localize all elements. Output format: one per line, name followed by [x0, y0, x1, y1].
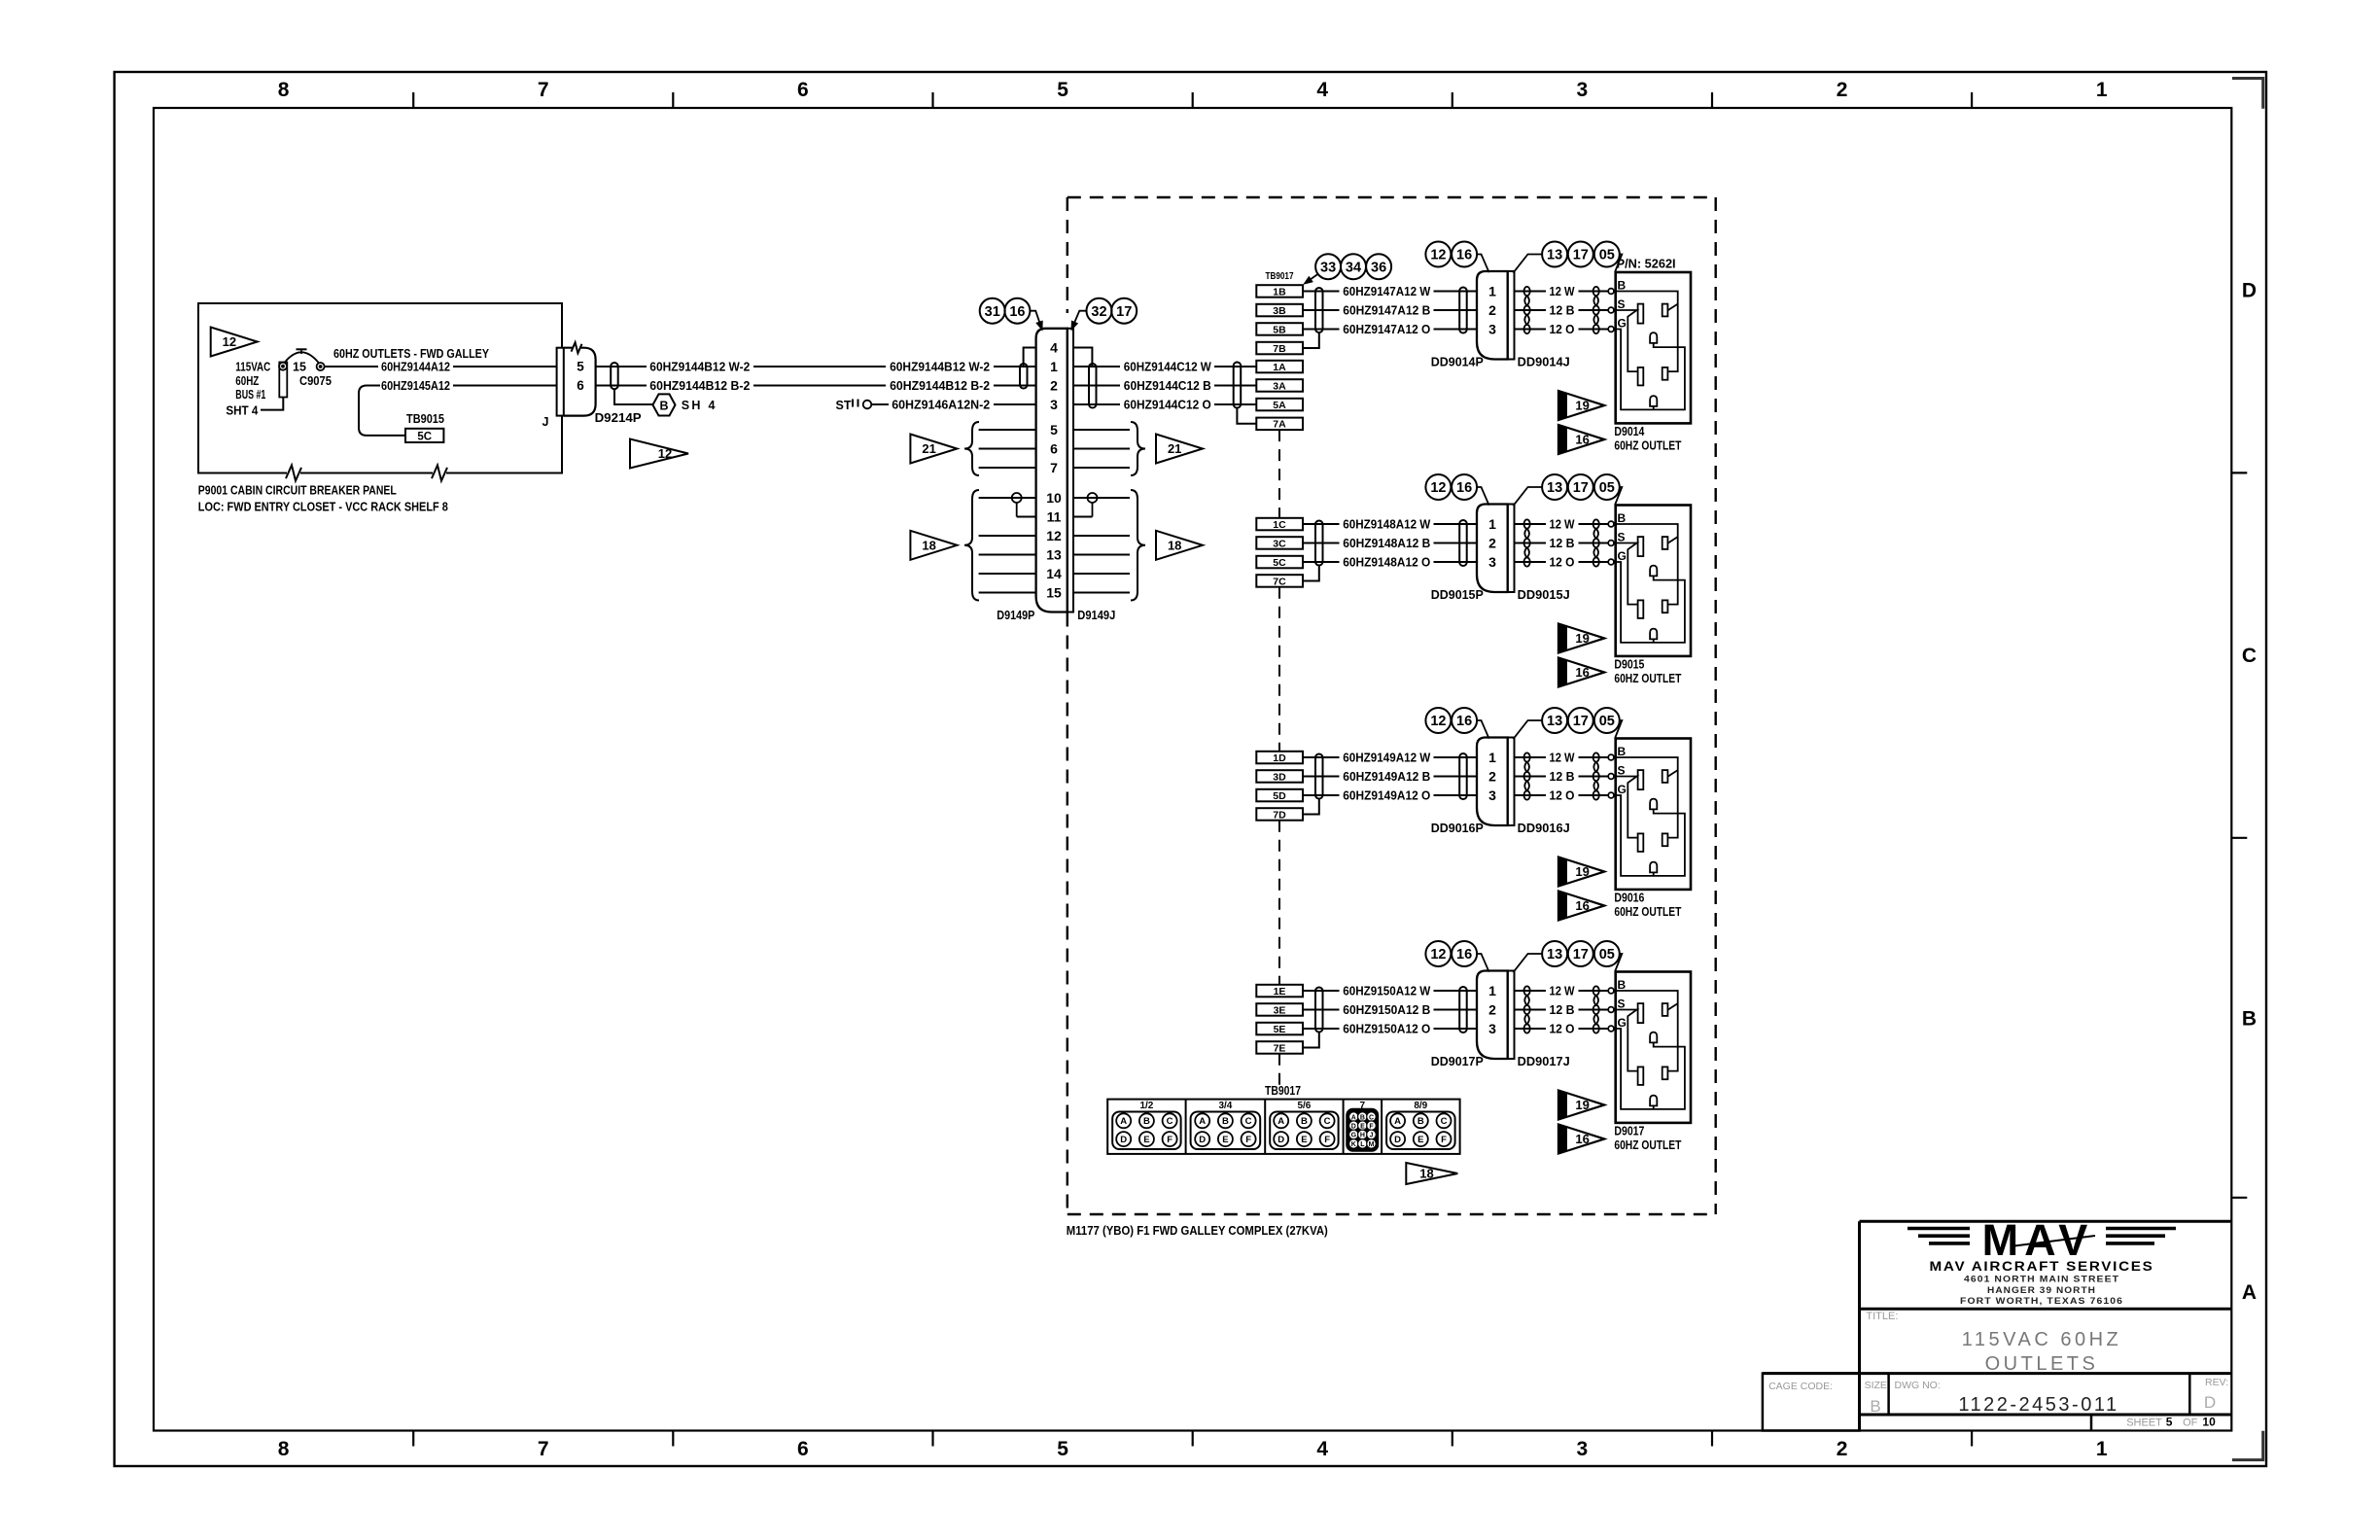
svg-text:11: 11 — [1047, 509, 1062, 525]
svg-text:60HZ9149A12 B: 60HZ9149A12 B — [1343, 770, 1430, 784]
svg-text:4: 4 — [1316, 79, 1328, 101]
svg-text:05: 05 — [1599, 947, 1615, 962]
svg-text:A: A — [1277, 1116, 1284, 1127]
svg-text:13: 13 — [1547, 248, 1562, 263]
svg-text:17: 17 — [1573, 947, 1589, 962]
svg-text:21: 21 — [1168, 441, 1181, 456]
svg-text:A: A — [1199, 1116, 1206, 1127]
svg-text:D9017: D9017 — [1614, 1125, 1644, 1138]
svg-text:5/6: 5/6 — [1297, 1101, 1311, 1111]
svg-text:5C: 5C — [1273, 557, 1286, 569]
svg-text:19: 19 — [1575, 1098, 1589, 1112]
svg-text:60HZ9149A12 W: 60HZ9149A12 W — [1343, 752, 1430, 765]
svg-text:60HZ9148A12 O: 60HZ9148A12 O — [1343, 556, 1430, 570]
svg-text:60HZ9144C12 W: 60HZ9144C12 W — [1124, 361, 1211, 374]
svg-text:D: D — [2204, 1393, 2216, 1412]
svg-text:4: 4 — [1316, 1438, 1328, 1460]
svg-text:J: J — [542, 415, 549, 429]
svg-text:G: G — [1618, 783, 1627, 796]
svg-text:31: 31 — [985, 304, 1000, 320]
svg-text:16: 16 — [1575, 433, 1589, 447]
svg-text:6: 6 — [797, 1438, 809, 1460]
svg-text:B: B — [1618, 511, 1627, 525]
svg-text:E: E — [1222, 1135, 1228, 1145]
svg-text:4601 NORTH MAIN STREET: 4601 NORTH MAIN STREET — [1964, 1275, 2119, 1285]
svg-text:D9014: D9014 — [1614, 425, 1644, 438]
svg-text:1/2: 1/2 — [1139, 1101, 1153, 1111]
svg-text:16: 16 — [1456, 248, 1472, 263]
svg-text:60HZ OUTLET: 60HZ OUTLET — [1614, 1138, 1681, 1152]
svg-text:M: M — [1369, 1141, 1375, 1148]
svg-text:G: G — [1618, 549, 1627, 563]
svg-text:16: 16 — [1456, 480, 1472, 496]
svg-text:10: 10 — [2202, 1416, 2216, 1429]
svg-text:SIZE: SIZE — [1865, 1380, 1887, 1391]
svg-text:60HZ OUTLET: 60HZ OUTLET — [1614, 672, 1681, 685]
svg-text:DD9014P: DD9014P — [1431, 356, 1484, 369]
svg-text:2: 2 — [1837, 79, 1848, 101]
svg-text:13: 13 — [1547, 480, 1562, 496]
svg-text:S: S — [1618, 764, 1626, 778]
svg-text:16: 16 — [1575, 1132, 1589, 1146]
svg-text:D: D — [1277, 1135, 1284, 1145]
svg-text:DD9016J: DD9016J — [1518, 822, 1570, 835]
svg-text:18: 18 — [1419, 1167, 1433, 1181]
svg-text:E: E — [1417, 1135, 1423, 1145]
svg-text:A: A — [1351, 1114, 1356, 1121]
svg-text:16: 16 — [1456, 947, 1472, 962]
svg-text:7: 7 — [538, 1438, 549, 1460]
svg-text:12 W: 12 W — [1550, 752, 1575, 765]
svg-text:12 W: 12 W — [1550, 985, 1575, 998]
svg-text:B: B — [1222, 1116, 1229, 1127]
svg-text:5: 5 — [1057, 79, 1068, 101]
svg-text:3: 3 — [1488, 1021, 1496, 1036]
svg-text:60HZ9144B12 B-2: 60HZ9144B12 B-2 — [890, 379, 990, 393]
svg-text:SHT 4: SHT 4 — [226, 404, 258, 418]
svg-text:60HZ OUTLET: 60HZ OUTLET — [1614, 905, 1681, 919]
svg-text:60HZ9148A12 B: 60HZ9148A12 B — [1343, 537, 1430, 550]
svg-text:7B: 7B — [1273, 343, 1286, 355]
svg-text:8: 8 — [278, 79, 290, 101]
svg-text:F: F — [1167, 1135, 1172, 1145]
svg-text:7C: 7C — [1273, 576, 1286, 587]
svg-text:1122-2453-011: 1122-2453-011 — [1958, 1394, 2118, 1416]
svg-text:D9015: D9015 — [1614, 658, 1644, 672]
svg-text:D: D — [1351, 1123, 1356, 1130]
svg-text:19: 19 — [1575, 399, 1589, 413]
svg-text:19: 19 — [1575, 631, 1589, 646]
svg-text:3E: 3E — [1274, 1004, 1286, 1016]
svg-text:7D: 7D — [1273, 809, 1286, 821]
svg-text:6: 6 — [797, 79, 809, 101]
svg-text:3B: 3B — [1273, 305, 1286, 317]
svg-text:C: C — [1245, 1116, 1252, 1127]
svg-text:LOC: FWD ENTRY CLOSET - VCC RA: LOC: FWD ENTRY CLOSET - VCC RACK SHELF 8 — [198, 501, 448, 514]
svg-text:36: 36 — [1371, 260, 1386, 275]
svg-text:D9149J: D9149J — [1077, 609, 1115, 622]
svg-text:L: L — [1360, 1141, 1365, 1148]
svg-text:DD9015J: DD9015J — [1518, 588, 1570, 602]
svg-text:3A: 3A — [1273, 380, 1286, 392]
svg-text:D: D — [1394, 1135, 1401, 1145]
svg-text:OUTLETS: OUTLETS — [1985, 1353, 2099, 1375]
svg-text:60HZ OUTLET: 60HZ OUTLET — [1614, 439, 1681, 453]
svg-text:1C: 1C — [1273, 519, 1286, 531]
svg-text:G: G — [1618, 1016, 1627, 1030]
svg-text:1B: 1B — [1273, 286, 1286, 297]
svg-text:60HZ9145A12: 60HZ9145A12 — [381, 379, 450, 393]
svg-text:12 B: 12 B — [1550, 304, 1575, 318]
svg-text:05: 05 — [1599, 248, 1615, 263]
svg-text:21: 21 — [922, 441, 935, 456]
svg-text:60HZ9144B12 W-2: 60HZ9144B12 W-2 — [890, 361, 990, 374]
svg-text:12 O: 12 O — [1550, 323, 1575, 336]
svg-text:HANGER 39 NORTH: HANGER 39 NORTH — [1987, 1285, 2096, 1296]
svg-text:60HZ9150A12 B: 60HZ9150A12 B — [1343, 1003, 1430, 1017]
svg-text:2: 2 — [1488, 536, 1496, 551]
svg-text:60HZ OUTLETS - FWD GALLEY: 60HZ OUTLETS - FWD GALLEY — [333, 347, 490, 361]
svg-text:1: 1 — [2096, 1438, 2108, 1460]
svg-text:TB9017: TB9017 — [1266, 271, 1294, 282]
svg-text:MAV AIRCRAFT SERVICES: MAV AIRCRAFT SERVICES — [1930, 1259, 2154, 1274]
svg-text:DD9017P: DD9017P — [1431, 1055, 1484, 1068]
svg-text:12: 12 — [1046, 528, 1062, 543]
svg-text:E: E — [1143, 1135, 1149, 1145]
svg-text:3C: 3C — [1273, 538, 1286, 549]
svg-text:18: 18 — [922, 538, 935, 552]
svg-text:DD9014J: DD9014J — [1518, 356, 1570, 369]
svg-text:17: 17 — [1573, 480, 1589, 496]
svg-text:K: K — [1351, 1141, 1356, 1148]
svg-text:G: G — [1351, 1133, 1357, 1139]
svg-text:5B: 5B — [1273, 324, 1286, 335]
svg-text:60HZ9144B12 B-2: 60HZ9144B12 B-2 — [649, 379, 750, 393]
svg-text:C: C — [1441, 1116, 1448, 1127]
svg-text:2: 2 — [1837, 1438, 1848, 1460]
svg-text:12: 12 — [1430, 714, 1446, 729]
svg-text:16: 16 — [1575, 665, 1589, 680]
svg-text:12 W: 12 W — [1550, 518, 1575, 532]
svg-text:2: 2 — [1488, 302, 1496, 318]
svg-text:S: S — [1618, 531, 1626, 544]
svg-text:A: A — [1394, 1116, 1401, 1127]
svg-text:ST: ST — [836, 399, 852, 412]
svg-text:BUS #1: BUS #1 — [235, 388, 265, 402]
svg-text:TITLE:: TITLE: — [1866, 1311, 1898, 1322]
svg-text:34: 34 — [1346, 260, 1361, 275]
svg-text:H: H — [1360, 1133, 1365, 1139]
svg-text:S: S — [1618, 297, 1626, 311]
svg-text:C: C — [1167, 1116, 1173, 1127]
svg-text:B: B — [1618, 745, 1627, 758]
svg-text:1: 1 — [1488, 750, 1496, 765]
svg-text:B: B — [1618, 279, 1627, 293]
svg-text:SHEET: SHEET — [2126, 1417, 2162, 1429]
svg-text:12: 12 — [1430, 480, 1446, 496]
svg-text:10: 10 — [1046, 490, 1062, 506]
svg-text:REV:: REV: — [2205, 1377, 2228, 1388]
svg-text:2: 2 — [1050, 378, 1058, 394]
svg-text:8: 8 — [278, 1438, 290, 1460]
svg-text:5D: 5D — [1273, 790, 1286, 802]
svg-text:B: B — [1417, 1116, 1424, 1127]
svg-text:2: 2 — [1488, 1002, 1496, 1018]
svg-text:7: 7 — [1050, 460, 1058, 475]
svg-text:B: B — [1360, 1114, 1365, 1121]
svg-text:7E: 7E — [1274, 1042, 1286, 1054]
svg-text:J: J — [1370, 1133, 1374, 1139]
svg-text:12 B: 12 B — [1550, 537, 1575, 550]
svg-text:8/9: 8/9 — [1414, 1101, 1427, 1111]
svg-text:C: C — [2242, 645, 2257, 667]
svg-text:D9016: D9016 — [1614, 892, 1644, 905]
svg-text:DD9016P: DD9016P — [1431, 822, 1484, 835]
svg-text:17: 17 — [1573, 248, 1589, 263]
svg-text:1: 1 — [1488, 516, 1496, 532]
svg-text:A: A — [2242, 1281, 2257, 1304]
svg-text:D: D — [1199, 1135, 1206, 1145]
svg-text:60HZ9144C12 B: 60HZ9144C12 B — [1124, 379, 1211, 393]
svg-text:P9001 CABIN CIRCUIT BREAKER PA: P9001 CABIN CIRCUIT BREAKER PANEL — [198, 484, 397, 498]
svg-text:60HZ: 60HZ — [235, 374, 259, 388]
svg-text:5A: 5A — [1273, 400, 1286, 411]
svg-text:3: 3 — [1577, 1438, 1589, 1460]
svg-text:12 O: 12 O — [1550, 556, 1575, 570]
svg-text:05: 05 — [1599, 714, 1615, 729]
svg-text:16: 16 — [1575, 898, 1589, 913]
svg-text:3D: 3D — [1273, 771, 1286, 783]
svg-text:CAGE CODE:: CAGE CODE: — [1768, 1381, 1833, 1392]
svg-text:60HZ9148A12 W: 60HZ9148A12 W — [1343, 518, 1430, 532]
svg-text:6: 6 — [577, 378, 584, 393]
svg-text:12: 12 — [223, 334, 236, 349]
svg-text:DD9015P: DD9015P — [1431, 588, 1484, 602]
svg-text:12: 12 — [1430, 248, 1446, 263]
svg-text:60HZ9146A12N-2: 60HZ9146A12N-2 — [892, 399, 990, 412]
svg-text:60HZ9147A12 W: 60HZ9147A12 W — [1343, 285, 1430, 298]
svg-text:D9149P: D9149P — [997, 609, 1034, 622]
svg-text:12 O: 12 O — [1550, 789, 1575, 803]
svg-text:F: F — [1441, 1135, 1447, 1145]
svg-text:MAV: MAV — [1982, 1215, 2094, 1265]
svg-text:C: C — [1324, 1116, 1331, 1127]
svg-text:1D: 1D — [1273, 752, 1286, 764]
svg-text:16: 16 — [1009, 304, 1025, 320]
svg-text:TB9017: TB9017 — [1265, 1083, 1301, 1098]
svg-text:G: G — [1618, 317, 1627, 331]
svg-text:DD9017J: DD9017J — [1518, 1055, 1570, 1068]
svg-text:D9214P: D9214P — [595, 411, 642, 425]
svg-text:60HZ9144B12 W-2: 60HZ9144B12 W-2 — [649, 361, 750, 374]
svg-text:FORT WORTH, TEXAS 76106: FORT WORTH, TEXAS 76106 — [1960, 1296, 2123, 1307]
svg-text:12: 12 — [1430, 947, 1446, 962]
svg-text:1E: 1E — [1274, 986, 1286, 997]
svg-text:115VAC 60HZ: 115VAC 60HZ — [1962, 1329, 2122, 1350]
svg-text:B: B — [1870, 1397, 1880, 1416]
svg-text:B: B — [2242, 1008, 2257, 1031]
svg-text:1A: 1A — [1273, 362, 1286, 373]
svg-text:DWG NO:: DWG NO: — [1895, 1380, 1941, 1391]
svg-text:F: F — [1245, 1135, 1251, 1145]
svg-text:F: F — [1324, 1135, 1330, 1145]
svg-text:3: 3 — [1577, 79, 1589, 101]
svg-text:C: C — [1369, 1114, 1374, 1121]
svg-text:12 B: 12 B — [1550, 1003, 1575, 1017]
svg-text:13: 13 — [1547, 947, 1562, 962]
svg-text:12: 12 — [658, 446, 672, 461]
svg-text:D: D — [1120, 1135, 1127, 1145]
svg-text:60HZ9149A12 O: 60HZ9149A12 O — [1343, 789, 1430, 803]
svg-text:E: E — [1301, 1135, 1307, 1145]
svg-text:5: 5 — [2166, 1416, 2173, 1429]
svg-text:33: 33 — [1320, 260, 1336, 275]
svg-text:12 B: 12 B — [1550, 770, 1575, 784]
svg-text:B: B — [1301, 1116, 1308, 1127]
svg-text:13: 13 — [1547, 714, 1562, 729]
svg-text:15: 15 — [1046, 585, 1062, 601]
svg-text:14: 14 — [1046, 566, 1062, 581]
svg-text:B: B — [659, 399, 668, 412]
svg-text:1: 1 — [1488, 284, 1496, 299]
svg-text:3: 3 — [1050, 397, 1058, 412]
svg-text:P/N: 5262I: P/N: 5262I — [1617, 257, 1676, 271]
svg-text:60HZ9144C12 O: 60HZ9144C12 O — [1124, 399, 1211, 412]
svg-text:7A: 7A — [1273, 419, 1286, 431]
svg-text:1: 1 — [2096, 79, 2108, 101]
svg-text:5C: 5C — [417, 431, 432, 442]
svg-text:05: 05 — [1599, 480, 1615, 496]
svg-text:D: D — [2242, 280, 2257, 302]
svg-text:60HZ9147A12 B: 60HZ9147A12 B — [1343, 304, 1430, 318]
svg-text:3: 3 — [1488, 554, 1496, 570]
svg-text:3: 3 — [1488, 787, 1496, 803]
svg-text:4: 4 — [1050, 340, 1058, 356]
svg-text:6: 6 — [1050, 441, 1058, 457]
svg-text:12 W: 12 W — [1550, 285, 1575, 298]
svg-text:60HZ9150A12 O: 60HZ9150A12 O — [1343, 1023, 1430, 1036]
svg-text:60HZ9144A12: 60HZ9144A12 — [381, 361, 450, 374]
svg-text:OF: OF — [2183, 1417, 2198, 1429]
svg-text:3/4: 3/4 — [1218, 1101, 1232, 1111]
svg-text:12 O: 12 O — [1550, 1023, 1575, 1036]
svg-text:S: S — [1618, 997, 1626, 1011]
svg-text:B: B — [1618, 978, 1627, 992]
svg-text:15: 15 — [293, 361, 306, 374]
svg-text:A: A — [1120, 1116, 1127, 1127]
svg-text:1: 1 — [1488, 983, 1496, 998]
svg-text:19: 19 — [1575, 864, 1589, 879]
svg-text:60HZ9147A12 O: 60HZ9147A12 O — [1343, 323, 1430, 336]
svg-text:F: F — [1369, 1123, 1374, 1130]
svg-text:M1177 (YBO) F1 FWD GALLEY COM: M1177 (YBO) F1 FWD GALLEY COMPLEX (27KVA… — [1067, 1223, 1328, 1238]
svg-text:17: 17 — [1116, 304, 1132, 320]
svg-text:5: 5 — [1057, 1438, 1068, 1460]
svg-text:115VAC: 115VAC — [235, 361, 270, 374]
svg-text:13: 13 — [1046, 547, 1062, 563]
svg-text:TB9015: TB9015 — [406, 412, 444, 426]
svg-text:5: 5 — [1050, 422, 1058, 437]
svg-text:2: 2 — [1488, 769, 1496, 785]
svg-text:5E: 5E — [1274, 1024, 1286, 1035]
svg-text:18: 18 — [1168, 538, 1181, 552]
svg-text:C9075: C9075 — [299, 374, 332, 388]
svg-text:3: 3 — [1488, 322, 1496, 337]
svg-text:60HZ9150A12 W: 60HZ9150A12 W — [1343, 985, 1430, 998]
svg-text:5: 5 — [577, 360, 584, 374]
svg-text:E: E — [1360, 1123, 1365, 1130]
svg-text:SH 4: SH 4 — [682, 399, 717, 412]
svg-text:16: 16 — [1456, 714, 1472, 729]
svg-text:7: 7 — [538, 79, 549, 101]
svg-text:17: 17 — [1573, 714, 1589, 729]
svg-text:1: 1 — [1050, 359, 1058, 374]
svg-text:32: 32 — [1091, 304, 1106, 320]
svg-text:B: B — [1143, 1116, 1150, 1127]
